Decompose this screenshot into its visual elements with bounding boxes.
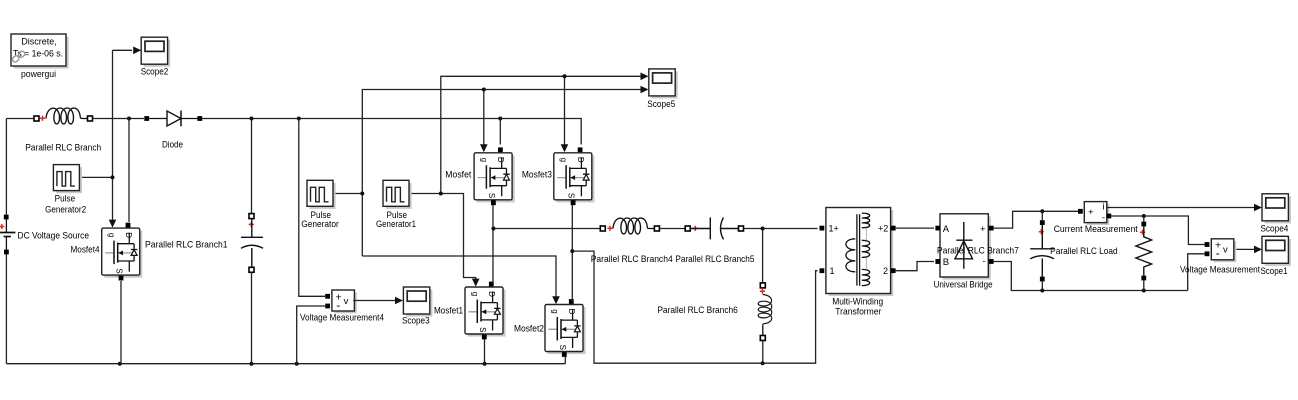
Mosfet4 (102, 223, 143, 281)
svg-text:Mosfet2: Mosfet2 (514, 323, 544, 334)
svg-text:DC Voltage Source: DC Voltage Source (18, 231, 90, 242)
wire: bus junction down to Voltage Measurement4 + (297, 117, 325, 297)
wire: DC source + up to top bus (5, 119, 7, 215)
wire: bridge + to Current Measurement + with tap to Branch7 (994, 209, 1078, 228)
svg-text:Generator: Generator (301, 219, 339, 230)
svg-text:+2: +2 (878, 224, 888, 234)
wire: top bus left segment to RLC Branch (6, 118, 34, 120)
wire: Branch5 to transformer 1+ with tap to Branch6 (744, 227, 818, 283)
svg-text:Scope3: Scope3 (402, 316, 430, 327)
svg-text:Parallel RLC Branch7: Parallel RLC Branch7 (937, 245, 1019, 256)
svg-text:+: + (980, 224, 986, 235)
Mosfet (474, 147, 515, 205)
svg-text:Mosfet: Mosfet (445, 170, 471, 181)
diode D1 (144, 111, 202, 127)
Pulse Generator (307, 180, 336, 209)
svg-text:Mosfet4: Mosfet4 (71, 245, 100, 256)
Parallel RLC Branch4 (series inductor) (600, 218, 659, 234)
bottom bus (negative rail) (6, 362, 565, 366)
wire: bus RLC Branch to Diode (93, 118, 145, 120)
svg-text:Discrete,: Discrete, (21, 37, 57, 48)
DC Voltage Source (0, 215, 15, 255)
svg-text:Diode: Diode (162, 140, 183, 151)
Mosfet2 (545, 299, 586, 357)
Universal Bridge (935, 214, 993, 280)
Scope5 (649, 69, 678, 99)
wire: Branch6 to return wire (762, 341, 764, 364)
Mosfet3 (554, 147, 595, 205)
svg-text:i: i (1102, 202, 1104, 213)
wire: left leg Mosfet S to Mosfet1 D with tap to RLC Branch4 (491, 205, 600, 284)
svg-text:powergui: powergui (21, 69, 56, 80)
svg-text:Mosfet1: Mosfet1 (434, 306, 463, 317)
svg-text:-: - (336, 298, 340, 312)
Parallel RLC Branch7 (capacitor) (1030, 220, 1054, 290)
wire: transformer 2 to bridge B (896, 262, 934, 271)
svg-text:v: v (1223, 245, 1228, 256)
wire: bus junction down to Mosfet4 D (127, 117, 131, 223)
Parallel RLC Branch1 (capacitor) (241, 214, 263, 273)
wire: Pulse Generator output net (to Mosfet g, Mosfet2 g, Scope5 in2) (336, 86, 649, 305)
Parallel RLC Branch6 (parallel inductor) (758, 283, 772, 341)
Scope4 (1262, 194, 1291, 224)
wire: bridge - to bottom right bus (994, 262, 1188, 293)
wire: Pulse Generator2 output to Scope2 and Mosfet4 gate (82, 50, 133, 227)
parallel RLC Branch (series inductor) (34, 108, 93, 124)
svg-text:Generator2: Generator2 (45, 205, 86, 216)
wire: Mosfet1 S to bottom bus (484, 340, 486, 364)
svg-text:B: B (943, 257, 949, 268)
svg-text:Universal Bridge: Universal Bridge (934, 280, 993, 291)
svg-text:v: v (344, 296, 349, 307)
svg-text:Parallel RLC Branch1: Parallel RLC Branch1 (145, 240, 228, 251)
svg-text:Parallel RLC Branch6: Parallel RLC Branch6 (657, 305, 738, 316)
wire: Current Measurement - to Voltage Measurement + with tap to RLC Load (1111, 214, 1204, 245)
wire: Voltage Measurement output to Scope1 (1236, 246, 1262, 254)
powergui block (11, 34, 69, 69)
wire: Voltage Measurement4 - to bottom bus (297, 306, 325, 364)
svg-text:Current Measurement: Current Measurement (1054, 224, 1138, 235)
Voltage Measurement4 (325, 290, 357, 313)
wire: Current Measurement i to Scope4 (1107, 204, 1262, 212)
svg-text:-: - (1216, 246, 1220, 260)
wire: transformer +2 to bridge A (896, 227, 934, 229)
svg-text:Pulse: Pulse (55, 193, 76, 204)
wire: top bus junction down to Mosfet D (498, 117, 502, 145)
svg-text:Generator1: Generator1 (376, 219, 416, 230)
svg-text:Transformer: Transformer (835, 306, 881, 317)
svg-text:Scope2: Scope2 (141, 67, 169, 78)
svg-text:Voltage Measurement4: Voltage Measurement4 (300, 313, 384, 324)
svg-text:1: 1 (830, 266, 835, 276)
Parallel RLC Load (resistor) (1136, 222, 1152, 291)
Pulse Generator2 (53, 165, 82, 194)
svg-text:Scope4: Scope4 (1260, 223, 1288, 234)
Scope2 (133, 37, 170, 67)
svg-text:-: - (1102, 213, 1105, 224)
svg-text:Scope5: Scope5 (647, 99, 675, 110)
wire: Branch4 to Branch5 (659, 228, 685, 230)
svg-text:Voltage Measurement: Voltage Measurement (1180, 264, 1260, 275)
svg-text:1+: 1+ (829, 224, 839, 234)
Pulse Generator1 (383, 180, 412, 209)
wire: right leg Mosfet3 S to Mosfet2 D with tap to return (570, 205, 817, 365)
svg-text:+: + (1088, 207, 1094, 218)
svg-text:Scope1: Scope1 (1261, 266, 1288, 277)
svg-text:-: - (982, 256, 985, 267)
wire: bus junction down to Parallel RLC Branch1 (250, 117, 254, 214)
wire: DC source - down to bottom bus (5, 255, 7, 364)
svg-text:A: A (943, 224, 950, 235)
Multi-Winding Transformer (820, 208, 896, 297)
Current Measurement (1078, 202, 1111, 226)
Parallel RLC Branch5 (series capacitor) (685, 217, 743, 239)
wire: VM4 output to Scope3 (353, 297, 403, 305)
Scope3 (403, 287, 432, 317)
svg-text:Mosfet3: Mosfet3 (522, 170, 552, 181)
Mosfet1 (465, 282, 506, 340)
svg-text:Parallel RLC Branch5: Parallel RLC Branch5 (675, 254, 754, 265)
svg-text:2: 2 (883, 266, 888, 276)
Scope1 (1262, 236, 1291, 266)
svg-text:Parallel RLC Load: Parallel RLC Load (1050, 246, 1118, 257)
wire: Pulse Generator1 output net (to Mosfet3 g, Mosfet1 g, Scope5 in1) (412, 73, 649, 287)
wire: Branch1 down to bottom bus (251, 272, 253, 363)
wire: Voltage Measurement - down to bottom right bus (1188, 254, 1205, 291)
wire: Mosfet2 S to bottom bus (564, 357, 566, 364)
wire: Mosfet4 S to bottom bus (120, 281, 122, 364)
Voltage Measurement (1205, 239, 1237, 262)
svg-text:Parallel RLC Branch4: Parallel RLC Branch4 (591, 254, 673, 265)
wire: top bus diode to Mosfet3 D corner (202, 119, 581, 145)
svg-text:Parallel RLC Branch: Parallel RLC Branch (25, 143, 101, 154)
